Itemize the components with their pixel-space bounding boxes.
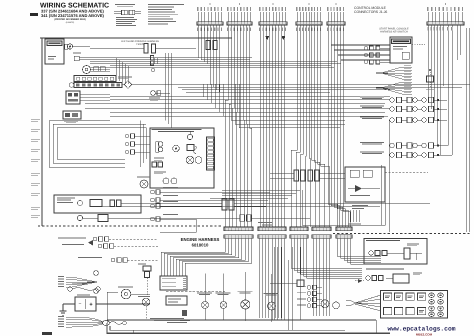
connector pair rows mid-left [151, 187, 271, 226]
mating connector pair E1 [224, 227, 253, 247]
clock circle component [83, 66, 111, 74]
wire bundle from J2 down to engine connector E1 [225, 25, 251, 227]
bus wires J4/J5 to keyswitch [331, 25, 390, 60]
svg-text:MBE2.COM: MBE2.COM [416, 332, 433, 336]
fuse 25A [138, 264, 151, 296]
engine harness wires E5 to right [337, 247, 381, 264]
svg-text:HARNESS KEYSWITCH: HARNESS KEYSWITCH [380, 31, 408, 34]
harness spider bottom-left lower [58, 316, 126, 327]
label start panel console harness [379, 28, 409, 34]
step connect line [160, 226, 196, 232]
vertical wire triple mid-left [165, 53, 171, 128]
pin stub group lift labels [258, 210, 361, 225]
inline connectors row y155 [360, 152, 447, 158]
connector J3 [259, 3, 287, 25]
left console harness boundary [40, 38, 232, 226]
page corner mark [30, 13, 38, 16]
engine harness wires E2 descending to lamps [259, 247, 284, 318]
harness separation dashed line right [333, 233, 471, 235]
staircase mesh center (J1/J2 area) [85, 84, 390, 128]
wire bundle from J4 down to E3/E4 [291, 25, 329, 227]
battery loop wires [107, 292, 118, 323]
engine harness wires E3 to right [291, 247, 362, 278]
fuel shutoff (late models) row [355, 269, 422, 284]
gauge circles [321, 300, 339, 309]
connector strip column [207, 137, 215, 170]
vertical drops center-bottom [272, 247, 300, 330]
solenoid driver box [345, 167, 428, 209]
wire bundle from J5 down [328, 25, 351, 227]
lamp L4 [264, 274, 279, 322]
relay box 1 [66, 91, 110, 104]
engine harness wires E4 down [313, 247, 329, 316]
harness spider fan lower [376, 80, 412, 94]
harness spider fan upper [376, 65, 412, 79]
console bus left stub connectors [149, 56, 170, 101]
label CONTROL MODULE CONNECTORS J1 J6 [354, 6, 387, 14]
glow plug controller box [160, 276, 187, 290]
connector J1 [197, 3, 223, 25]
svg-text:6818010: 6818010 [192, 243, 209, 248]
legend connector-symbol note [114, 4, 141, 26]
url watermark [387, 326, 455, 336]
svg-text:(PRINTED NOVEMBER 2002): (PRINTED NOVEMBER 2002) [54, 18, 86, 21]
spider fan to fuse panel [346, 295, 381, 311]
dense horizontals y84-93 [140, 85, 470, 93]
relay box 2 [63, 111, 81, 123]
legend text paragraph [148, 4, 184, 25]
wire bundle from J1: staircase to right buses [198, 25, 470, 92]
harness spider bottom-left upper [58, 276, 97, 287]
verticals dropping from console bus [116, 58, 128, 85]
svg-text:CONNECTORS J1-J6: CONNECTORS J1-J6 [354, 10, 387, 14]
inline connectors row y120 [360, 117, 447, 123]
traction lock bus box [54, 195, 222, 213]
inline connectors row y100 [360, 97, 447, 103]
label LEFT HAND CONSOLE HARNESS 710975 [121, 40, 159, 46]
diamond flasher component [122, 81, 140, 89]
terminal strip bar 1 [74, 76, 132, 82]
svg-text:(6 MATE): (6 MATE) [66, 21, 75, 24]
left edge terminal stubs [31, 119, 40, 217]
keyswitch box [390, 37, 426, 63]
wire bundle from J3 down to E2 [260, 25, 285, 227]
lamp L3 [237, 272, 252, 321]
nested routing loops left [49, 121, 146, 168]
bottom distribution bus [107, 319, 376, 321]
inline connector pair on long bus [222, 199, 430, 210]
diode block column [426, 69, 434, 90]
right vertical drop wires [302, 120, 389, 232]
fusible link row [68, 284, 100, 292]
lamp L2 [216, 274, 231, 321]
fuel shutoff solenoid box (early models) [364, 239, 427, 265]
bottom caption text [164, 320, 190, 323]
sender label bottom [150, 318, 184, 321]
horizontal quad bus right of media box [210, 191, 300, 199]
switch component right of A/C box [65, 44, 91, 49]
A/C switch box [45, 39, 64, 64]
bottom-left corner mark [42, 332, 52, 335]
sender component dark [182, 310, 187, 316]
svg-text:−: − [79, 302, 82, 308]
inline connectors row y109 [360, 106, 447, 112]
label ENGINE HARNESS 6818010 [181, 237, 220, 248]
inline connectors row y145.5 [360, 142, 447, 148]
fuel sender row [77, 215, 310, 222]
inline connectors to solenoid [270, 170, 345, 181]
console bus horizontals [79, 58, 341, 68]
connector J4 [296, 3, 322, 25]
inline connector rows left of media box [125, 134, 150, 154]
aux module box below [166, 296, 187, 305]
title block [40, 3, 109, 25]
small module over bus [73, 53, 81, 61]
alternator [118, 287, 150, 299]
battery [63, 295, 150, 312]
glow plug relay row [78, 257, 158, 262]
svg-text:ENGINE HARNESS: ENGINE HARNESS [181, 237, 220, 242]
keyswitch feed connectors [364, 46, 390, 64]
inline connector pair on J1 bundle [206, 41, 217, 50]
ground symbol battery [60, 304, 67, 315]
bottom boundary box [107, 320, 390, 333]
circle connector with X mid-left [137, 177, 150, 189]
starter circle [138, 296, 150, 320]
fuel shutoff rows left [58, 237, 158, 248]
pin wire labels below connectors [197, 28, 344, 32]
left hand media electrical panel box [150, 128, 214, 188]
terminal circles left [94, 271, 99, 276]
mating connector pair E5 [336, 227, 352, 247]
terminal strip bar 2 with cells [69, 83, 122, 88]
mating connector pair E3 [290, 227, 308, 247]
connector J6 [427, 3, 464, 25]
harness separation dashed line left [38, 225, 222, 227]
wire bundle from J6 down [428, 25, 470, 232]
svg-text:341 (S/N 234711576 AND ABOVE): 341 (S/N 234711576 AND ABOVE) [41, 13, 105, 18]
inline connector pair on console top bus [90, 44, 196, 54]
fuse panel [381, 291, 448, 319]
relay cluster center-bottom [270, 280, 322, 308]
lamp L1 [197, 274, 212, 321]
mating connector pair E4 [312, 227, 331, 247]
connector J5 [327, 3, 345, 25]
engine harness wires E1 descending to glow block [161, 247, 252, 276]
connector J2 [227, 3, 252, 25]
svg-text:710975: 710975 [136, 43, 145, 46]
mating connector pair E2 [258, 227, 286, 247]
dash-dot link line [166, 291, 225, 293]
